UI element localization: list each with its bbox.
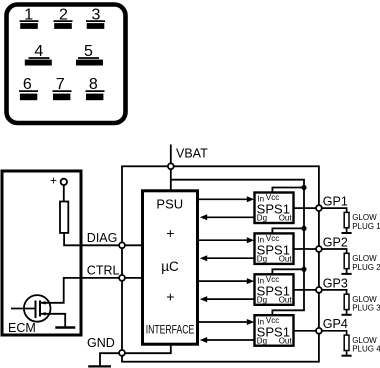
svg-text:GP2: GP2 xyxy=(323,235,348,249)
svg-text:Dg: Dg xyxy=(257,296,267,305)
svg-text:PLUG 4: PLUG 4 xyxy=(352,345,380,354)
svg-text:Dg: Dg xyxy=(257,336,267,345)
svg-text:GLOW: GLOW xyxy=(352,254,377,263)
svg-text:Dg: Dg xyxy=(257,214,267,223)
svg-text:Out: Out xyxy=(279,255,293,264)
svg-text:Out: Out xyxy=(279,296,293,305)
svg-text:INTERFACE: INTERFACE xyxy=(146,325,195,337)
svg-text:+: + xyxy=(50,174,57,188)
svg-text:DIAG: DIAG xyxy=(87,231,118,245)
svg-text:+: + xyxy=(166,225,174,241)
svg-text:GP4: GP4 xyxy=(323,317,348,331)
svg-text:PLUG 3: PLUG 3 xyxy=(352,304,380,313)
svg-text:CTRL: CTRL xyxy=(87,263,120,277)
svg-text:GND: GND xyxy=(87,336,115,350)
svg-text:PLUG 2: PLUG 2 xyxy=(352,263,380,272)
svg-text:PLUG 1: PLUG 1 xyxy=(352,222,380,231)
svg-text:PSU: PSU xyxy=(156,197,183,212)
svg-text:+: + xyxy=(166,289,174,305)
svg-text:GLOW: GLOW xyxy=(352,295,377,304)
svg-text:ECM: ECM xyxy=(8,321,36,335)
svg-text:GP1: GP1 xyxy=(323,195,348,209)
svg-text:Dg: Dg xyxy=(257,255,267,264)
svg-text:GLOW: GLOW xyxy=(352,213,377,222)
svg-text:GLOW: GLOW xyxy=(352,336,377,345)
svg-text:Out: Out xyxy=(279,336,293,345)
svg-text:µC: µC xyxy=(161,259,179,274)
svg-text:VBAT: VBAT xyxy=(176,147,208,161)
svg-text:Out: Out xyxy=(279,214,293,223)
svg-text:GP3: GP3 xyxy=(323,276,348,290)
